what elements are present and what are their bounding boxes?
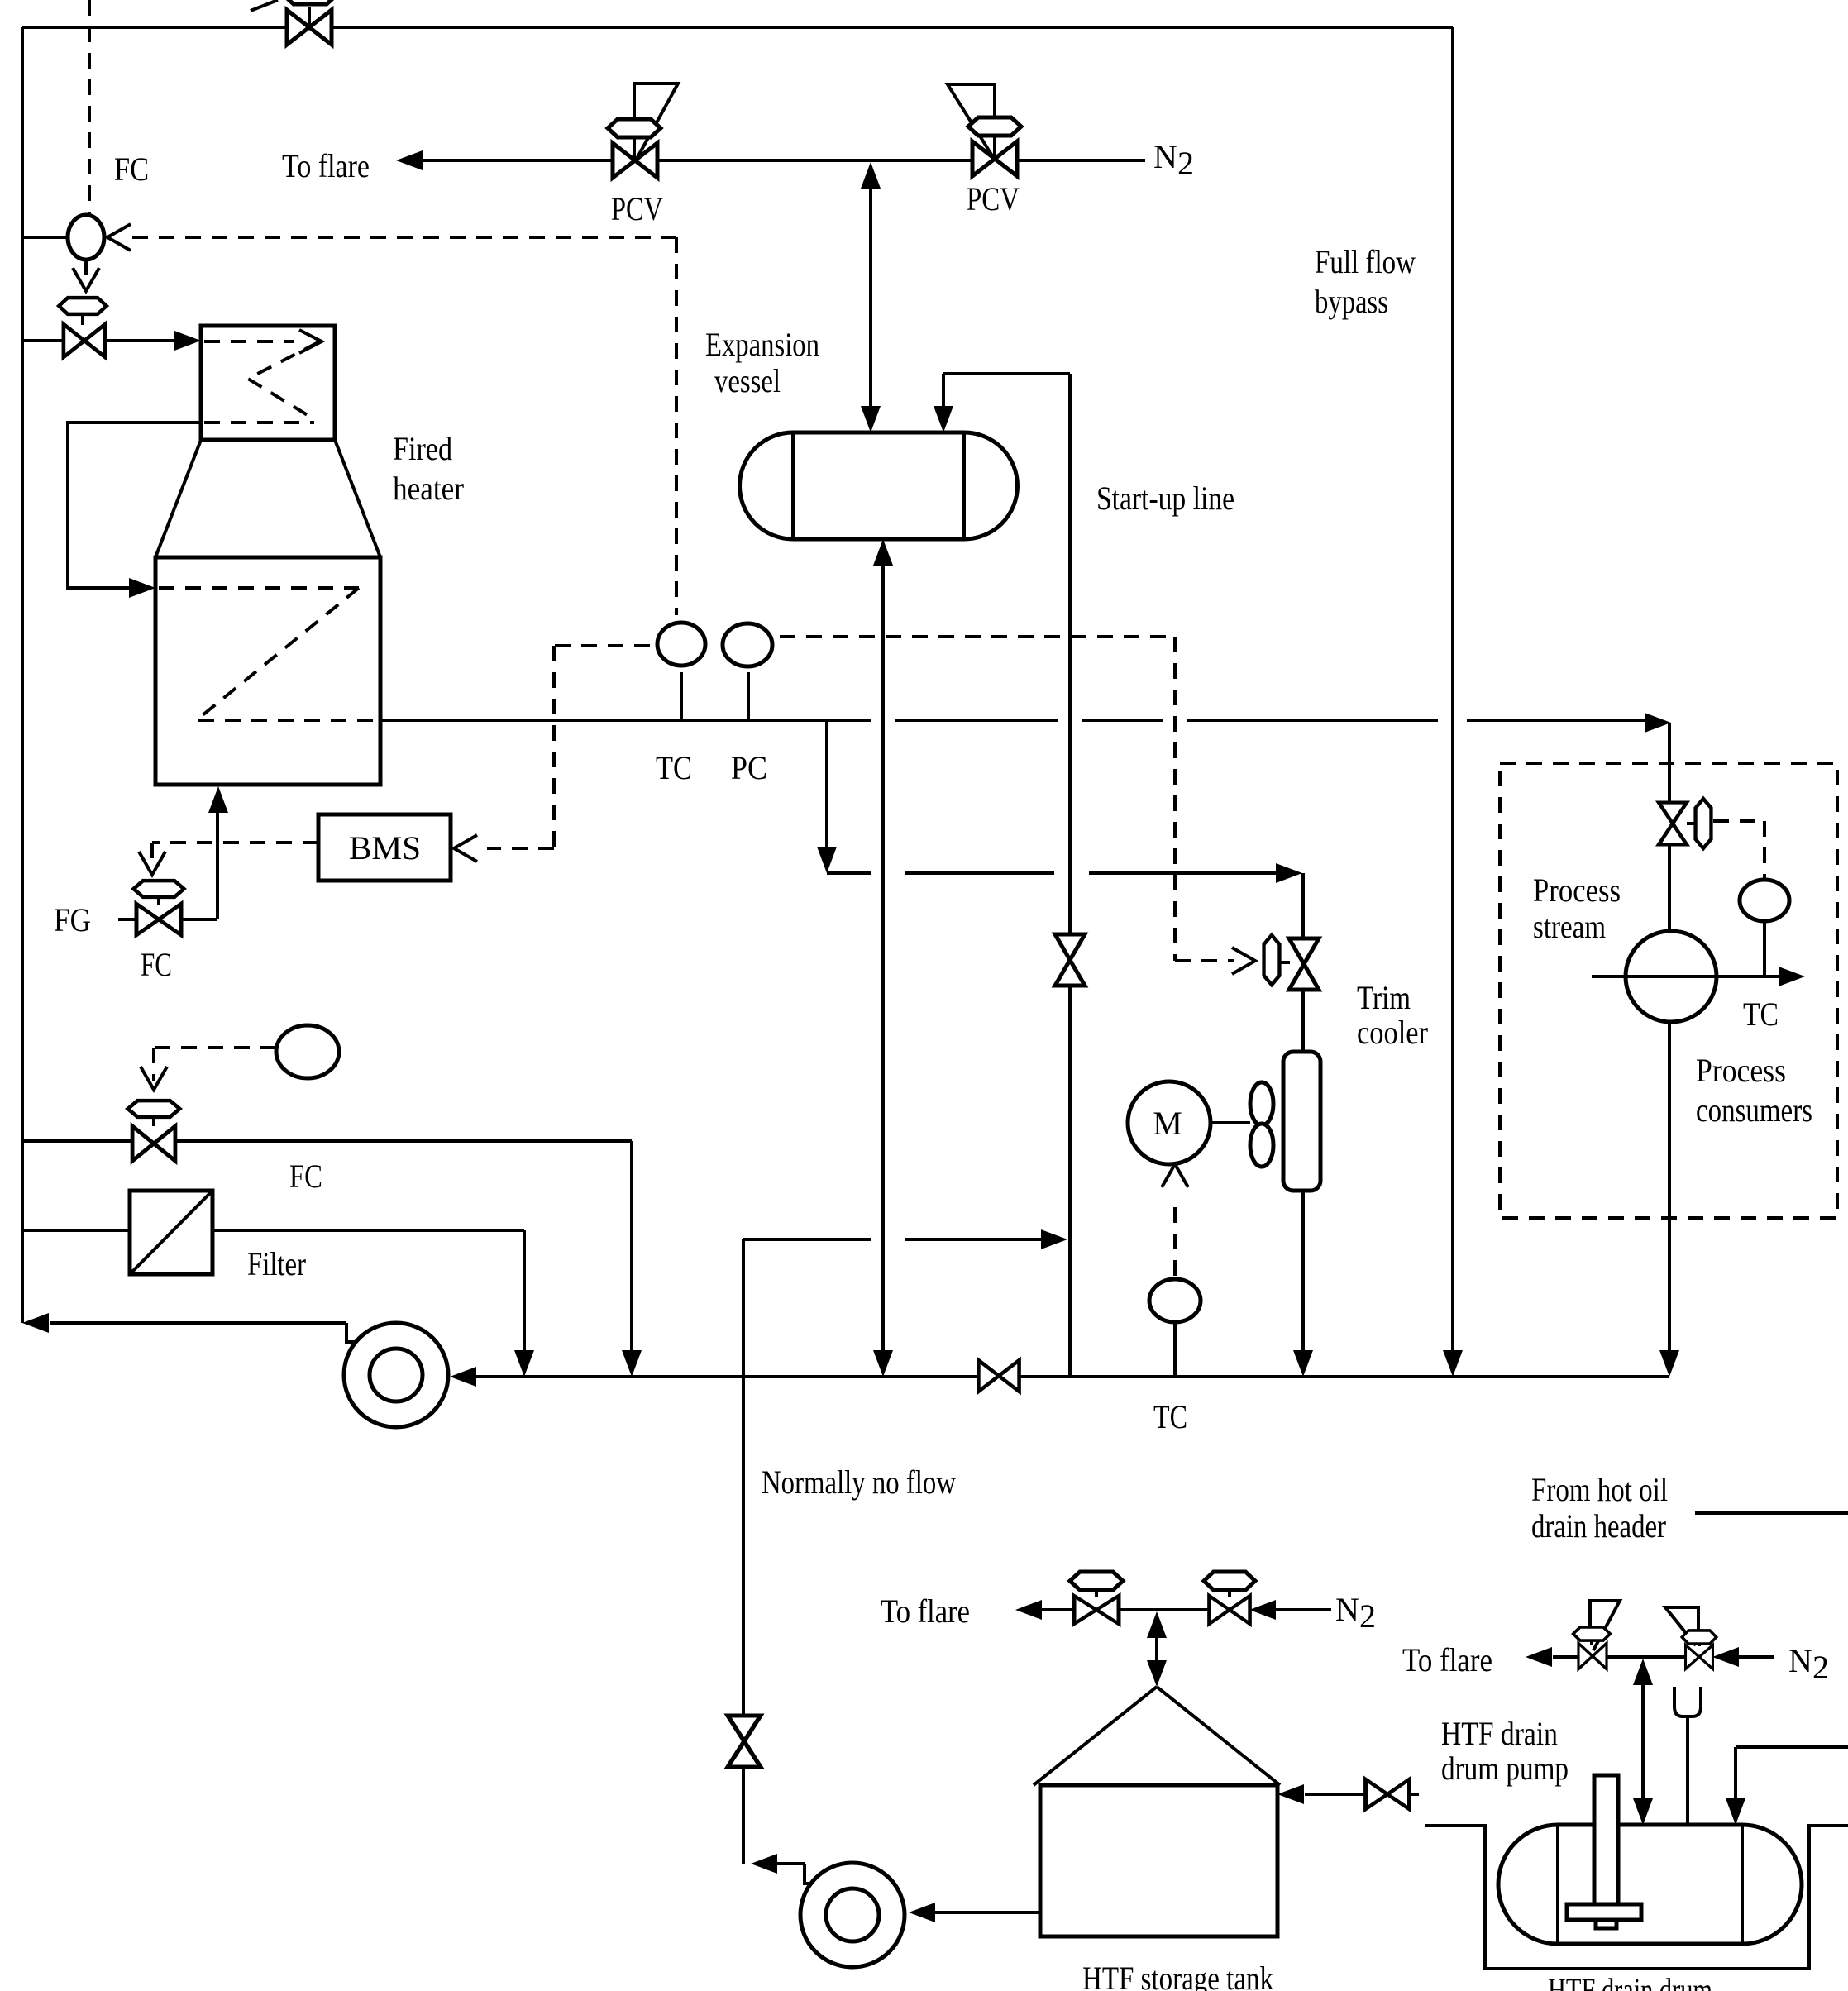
svg-text:bypass: bypass	[1315, 283, 1388, 320]
svg-text:Fired: Fired	[393, 430, 452, 467]
svg-text:2: 2	[1359, 1597, 1376, 1635]
svg-text:PCV: PCV	[611, 190, 663, 227]
svg-text:Trim: Trim	[1357, 979, 1411, 1016]
svg-text:FC: FC	[141, 946, 172, 983]
svg-text:Start-up line: Start-up line	[1096, 480, 1234, 517]
svg-text:BMS: BMS	[349, 829, 421, 867]
svg-text:TC: TC	[1153, 1398, 1187, 1435]
svg-text:FC: FC	[289, 1158, 322, 1195]
svg-text:vessel: vessel	[714, 362, 781, 399]
svg-text:drum pump: drum pump	[1441, 1750, 1569, 1787]
svg-text:Process: Process	[1533, 871, 1621, 909]
svg-text:To flare: To flare	[282, 147, 370, 184]
svg-text:TC: TC	[656, 749, 692, 786]
svg-text:N: N	[1788, 1642, 1812, 1679]
svg-text:PC: PC	[731, 749, 767, 786]
svg-text:Process: Process	[1696, 1052, 1786, 1089]
svg-text:consumers: consumers	[1696, 1091, 1812, 1129]
svg-text:stream: stream	[1533, 908, 1606, 945]
svg-text:2: 2	[1177, 145, 1194, 182]
svg-text:To flare: To flare	[1402, 1641, 1492, 1678]
svg-text:M: M	[1153, 1105, 1182, 1142]
svg-text:drain header: drain header	[1531, 1507, 1666, 1545]
svg-text:N: N	[1153, 138, 1177, 175]
svg-text:TC: TC	[1743, 995, 1779, 1033]
svg-text:PCV: PCV	[967, 180, 1020, 217]
svg-text:2: 2	[1812, 1649, 1829, 1686]
svg-text:From hot oil: From hot oil	[1531, 1471, 1668, 1508]
svg-text:N: N	[1335, 1591, 1359, 1628]
svg-text:To flare: To flare	[881, 1592, 970, 1630]
svg-text:HTF storage tank: HTF storage tank	[1082, 1960, 1273, 1991]
svg-text:Expansion: Expansion	[705, 326, 819, 363]
svg-text:Full flow: Full flow	[1315, 243, 1416, 280]
svg-text:cooler: cooler	[1357, 1014, 1428, 1051]
svg-text:Filter: Filter	[247, 1245, 306, 1282]
svg-text:HTF drain: HTF drain	[1441, 1715, 1558, 1752]
svg-text:HTF drain drum: HTF drain drum	[1548, 1971, 1712, 1991]
svg-text:FC: FC	[114, 150, 149, 188]
svg-text:Normally no flow: Normally no flow	[762, 1463, 956, 1501]
svg-text:heater: heater	[393, 470, 464, 507]
svg-text:FG: FG	[54, 901, 91, 938]
